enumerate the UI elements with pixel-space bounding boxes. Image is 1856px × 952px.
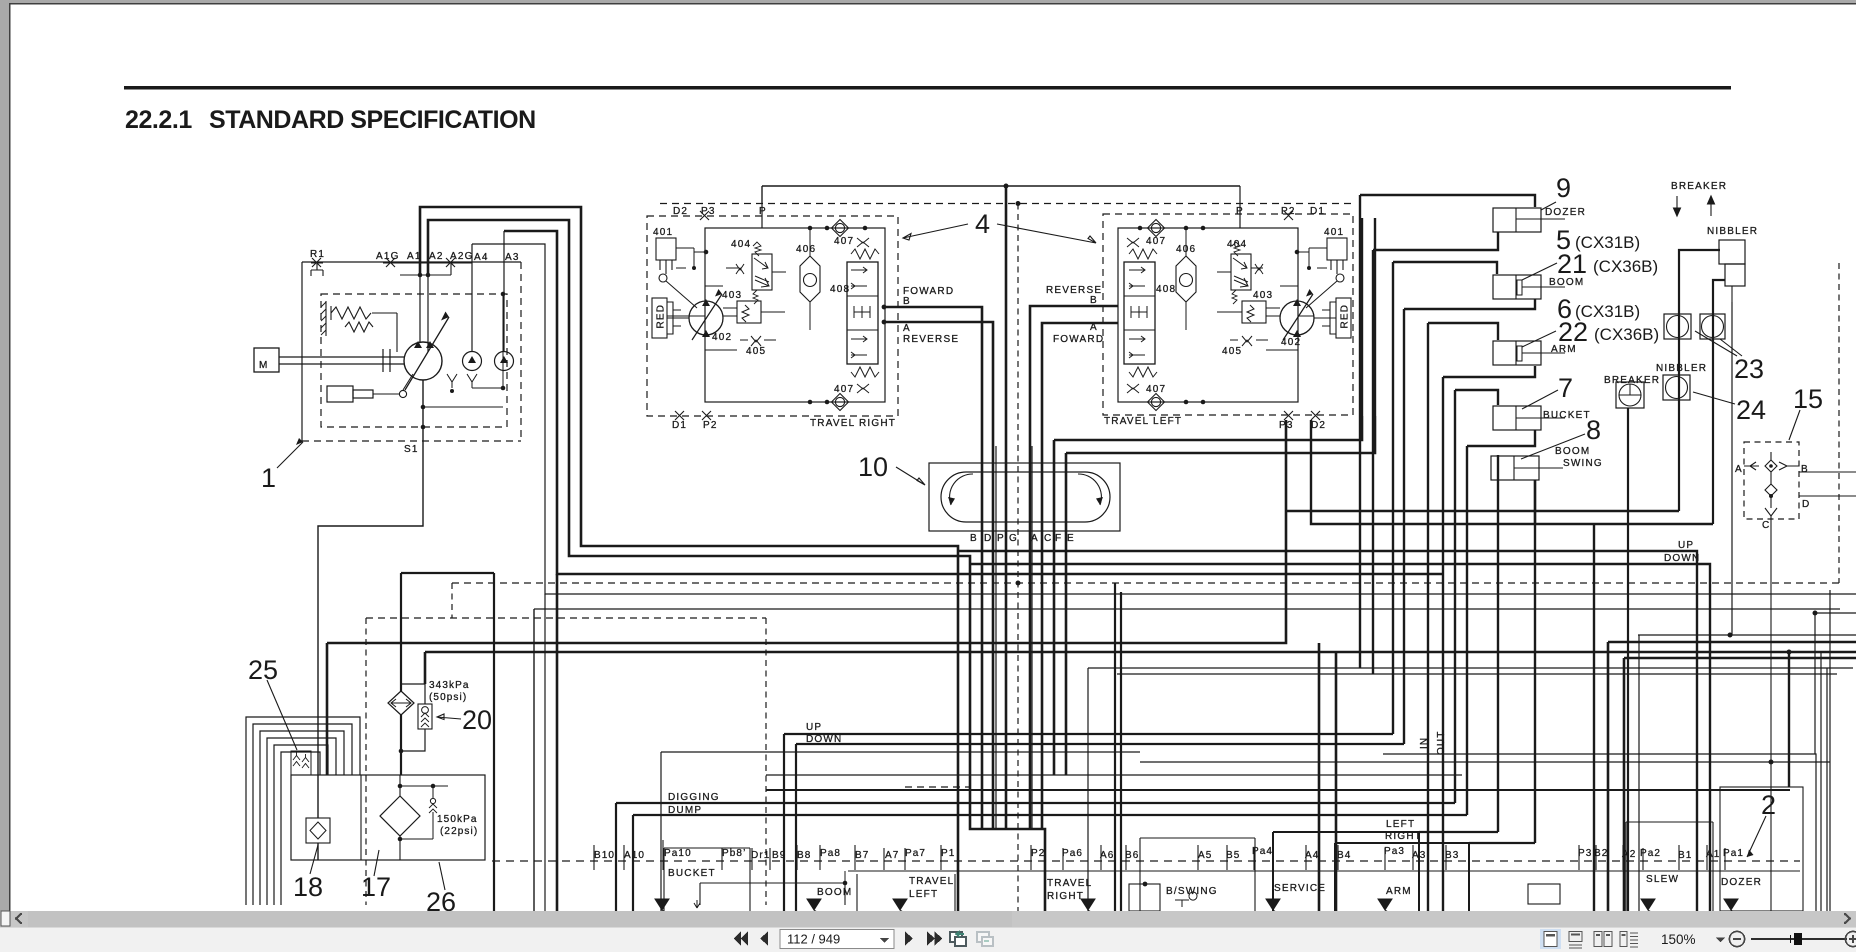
wire bswing feed lower from D2: [1311, 420, 1713, 524]
shaft: [279, 349, 404, 372]
bank body top rail: [848, 870, 1800, 872]
svg-text:407: 407: [1146, 384, 1166, 395]
svg-text:D2: D2: [673, 206, 688, 217]
case drain symbols: [447, 294, 503, 388]
horizontal scrollbar strip: [0, 911, 1856, 927]
boom section connector: [700, 883, 845, 905]
svg-text:A: A: [1090, 322, 1098, 333]
arm port 6/22: [1493, 341, 1541, 365]
wire A4 riser thin: [472, 244, 1856, 594]
svg-text:10: 10: [858, 452, 888, 482]
pressure filter 406 left: [1176, 256, 1196, 302]
svg-text:B3: B3: [1445, 850, 1459, 861]
svg-text:B2: B2: [1594, 848, 1608, 859]
rotate icon 1: [950, 931, 966, 946]
svg-text:406: 406: [1176, 244, 1196, 255]
servo cylinder: [327, 386, 353, 402]
thin drop x1639: [1638, 635, 1640, 911]
breaker arrows top: [1674, 196, 1681, 216]
valve 15 dashed box: [1744, 442, 1799, 519]
block internal wiring left: [1217, 252, 1336, 350]
svg-text:STANDARD SPECIFICATION: STANDARD SPECIFICATION: [209, 106, 536, 134]
svg-text:SLEW: SLEW: [1646, 874, 1679, 885]
bucket section box: [664, 848, 750, 911]
P supply drop left: [1239, 186, 1241, 228]
svg-text:Pa6: Pa6: [1062, 848, 1083, 859]
wire arm feed lower: [1443, 366, 1535, 911]
swivel F riser to travel-left frame: [1054, 416, 1362, 775]
S1 suction line: [318, 380, 423, 860]
svg-text:Pb8’: Pb8’: [722, 848, 746, 859]
svg-text:SWING: SWING: [1563, 458, 1603, 469]
travel-left side risers: [1362, 218, 1375, 416]
boom port 5/21: [1493, 275, 1541, 299]
svg-text:B: B: [970, 533, 978, 544]
shuttle valve 404: [752, 254, 772, 290]
pilot box dashed top: [366, 617, 766, 619]
pilot filter loop frame: [401, 573, 494, 691]
bottom toolbar: [0, 927, 1856, 952]
svg-text:Pa4: Pa4: [1252, 846, 1273, 857]
port ticks: [594, 840, 1725, 870]
pilot rail y790: [766, 789, 1790, 791]
svg-text:B9: B9: [772, 850, 786, 861]
bswing port riser: [1497, 455, 1499, 511]
bypass check 150kPa: [400, 786, 448, 839]
layout icon 2: [1569, 932, 1582, 949]
block internal wiring: [667, 252, 785, 350]
pressure filter 406: [800, 256, 820, 302]
svg-text:8: 8: [1586, 415, 1601, 445]
control spring: [331, 306, 371, 320]
thin rail y609: [534, 608, 1840, 610]
B / A output lines: [885, 307, 982, 829]
port X marks left: [1284, 211, 1320, 420]
thin rail y775: [766, 774, 1462, 776]
label 17 leader: [374, 850, 379, 876]
svg-text:402: 402: [712, 332, 732, 343]
svg-text:7: 7: [1558, 373, 1573, 403]
bank dashed top: [905, 786, 970, 788]
port lines A4 A3: [472, 231, 504, 352]
slew section box: [1626, 822, 1713, 911]
svg-text:A4: A4: [1305, 850, 1319, 861]
svg-text:Pa2: Pa2: [1640, 848, 1661, 859]
counterbalance 403: [737, 301, 761, 323]
svg-text:401: 401: [653, 227, 673, 238]
label 4 leader arrows: [903, 224, 968, 240]
label 26 leader: [439, 862, 445, 890]
svg-text:R1: R1: [310, 249, 325, 260]
layout icon 3 (two page): [1594, 932, 1612, 947]
svg-text:B5: B5: [1226, 850, 1240, 861]
svg-text:P2: P2: [703, 420, 718, 431]
svg-text:DOWN: DOWN: [1664, 553, 1700, 564]
svg-text:408: 408: [1156, 284, 1176, 295]
svg-text:OUT: OUT: [1436, 731, 1447, 755]
svg-text:P2: P2: [1031, 848, 1045, 859]
slew feed drop: [1593, 524, 1595, 911]
svg-text:B10: B10: [594, 850, 615, 861]
travel left motor M3: [1280, 301, 1314, 335]
svg-text:P: P: [759, 206, 767, 217]
svg-text:(50psi): (50psi): [429, 692, 467, 703]
group 4 dashed header: [660, 203, 1355, 205]
travel left dashed boundary: [1103, 214, 1353, 415]
thin rail y668: [1088, 667, 1853, 669]
svg-text:FOWARD: FOWARD: [1053, 334, 1104, 345]
travel left section dividers: [857, 874, 955, 911]
label 2 leader: [1747, 816, 1766, 857]
tank return rings: [246, 717, 360, 905]
bucket port 7: [1493, 406, 1541, 430]
bswing lower port riser: [1534, 480, 1536, 524]
return rail y643 to P3: [327, 420, 1286, 775]
dashed stub: [451, 583, 453, 618]
right return rail y642: [1608, 642, 1856, 911]
page number box: [780, 930, 894, 949]
port column drops: [1497, 511, 1499, 832]
svg-text:17: 17: [361, 872, 391, 902]
svg-text:22: 22: [1558, 317, 1588, 347]
pilot box dashed left: [365, 618, 367, 905]
bswing pilot symbol: [1175, 892, 1197, 907]
layout icon 1 (active): [1540, 929, 1561, 949]
svg-text:P: P: [1236, 206, 1244, 217]
pump riser tails: [556, 574, 559, 911]
small boxes right: [1528, 884, 1560, 904]
svg-text:404: 404: [1227, 239, 1247, 250]
swivel E riser to travel-left frame: [1066, 416, 1375, 775]
boom swing port 8: [1491, 456, 1539, 480]
svg-text:9: 9: [1556, 173, 1571, 203]
svg-text:TRAVEL LEFT: TRAVEL LEFT: [1104, 416, 1182, 427]
svg-text:A2: A2: [1622, 849, 1636, 860]
svg-text:B7: B7: [855, 850, 869, 861]
gear pump circles: [463, 352, 482, 371]
check valve 407 top: [835, 223, 844, 232]
svg-text:B6: B6: [1125, 850, 1139, 861]
svg-text:403: 403: [1253, 290, 1273, 301]
bypass branch with relief 20: [401, 684, 425, 751]
throttles by 408 left: [1127, 238, 1139, 393]
relief valve 20: [418, 704, 432, 729]
label 24 leader: [1693, 392, 1735, 404]
svg-text:22.2.1: 22.2.1: [125, 106, 192, 134]
svg-text:D: D: [1802, 499, 1810, 510]
svg-text:B: B: [1090, 295, 1098, 306]
svg-text:4: 4: [975, 209, 990, 239]
svg-text:DUMP: DUMP: [668, 805, 702, 816]
B / A output lines left: [1030, 306, 1118, 829]
label 23 leaders: [1695, 331, 1742, 356]
svg-text:401: 401: [1324, 227, 1344, 238]
svg-text:A2G: A2G: [450, 251, 474, 262]
pilot filter F2 diamond 343kPa: [388, 691, 414, 715]
svg-text:D: D: [984, 533, 992, 544]
check valve 407 top left: [1151, 223, 1160, 232]
right margin dashed riser: [1838, 263, 1840, 583]
check valve 407 bottom: [835, 397, 844, 406]
svg-text:A5: A5: [1198, 850, 1212, 861]
label 10 leader: [896, 467, 925, 485]
arm section box: [1335, 843, 1469, 911]
thin rail y754: [1383, 754, 1816, 911]
R1 port: [311, 258, 323, 267]
service section box: [1273, 832, 1419, 911]
svg-text:B: B: [903, 296, 911, 307]
svg-text:DIGGING: DIGGING: [668, 792, 720, 803]
check valve 407 bottom left: [1151, 397, 1160, 406]
svg-text:Pa3: Pa3: [1384, 846, 1405, 857]
svg-text:112 / 949: 112 / 949: [787, 932, 840, 947]
svg-text:(22psi): (22psi): [440, 826, 478, 837]
svg-text:BOOM: BOOM: [1549, 277, 1584, 288]
svg-text:403: 403: [722, 290, 742, 301]
solenoid arrows: [655, 899, 1739, 915]
travel right motor M2: [689, 301, 723, 335]
top gray bar: [0, 0, 1856, 3]
tank box assembly: [291, 775, 485, 860]
main filter F1 150kPa: [380, 796, 420, 836]
throttle 405: [751, 336, 761, 346]
wire A3 riser: [504, 231, 1443, 574]
svg-text:NIBBLER: NIBBLER: [1656, 363, 1707, 374]
digging/dump pilot pair: [616, 803, 1455, 911]
zoom out: [1729, 931, 1744, 946]
svg-text:B: B: [1801, 464, 1809, 475]
svg-text:M: M: [259, 360, 269, 371]
wire bswing feed upper branch: [1286, 510, 1679, 512]
svg-text:F: F: [1055, 533, 1062, 544]
swivel joint frame: [929, 463, 1120, 531]
svg-text:RED: RED: [656, 304, 667, 329]
dozer section box 2: [1720, 787, 1803, 911]
svg-text:A: A: [1031, 533, 1039, 544]
svg-text:(CX36B): (CX36B): [1593, 257, 1658, 276]
next-page arrows: [905, 932, 913, 946]
svg-text:UP: UP: [806, 722, 822, 733]
port row labels: [594, 846, 1744, 861]
svg-text:Pa1: Pa1: [1723, 848, 1744, 859]
svg-text:C: C: [1044, 533, 1052, 544]
return rail y652: [425, 652, 1856, 684]
coupler squares 23: [1664, 314, 1691, 339]
travel right inner frame: [705, 228, 885, 402]
svg-text:A: A: [1735, 464, 1743, 475]
thin rail y674: [1117, 673, 1837, 675]
svg-text:G: G: [1009, 533, 1018, 544]
svg-text:407: 407: [1146, 236, 1166, 247]
bswing section box: [1140, 838, 1255, 911]
svg-text:P: P: [997, 533, 1005, 544]
svg-text:A4: A4: [474, 252, 489, 263]
dozer down rail to item15: [970, 564, 1710, 911]
RED shuttle box left: [1336, 298, 1351, 338]
svg-text:BOOM: BOOM: [1555, 446, 1590, 457]
pilot box at B6: [1129, 884, 1160, 911]
svg-text:A1: A1: [407, 251, 422, 262]
right pilot rail: [1469, 842, 1535, 844]
thin right rail: [1829, 590, 1831, 911]
dozer up rail to item15: [958, 551, 1697, 911]
svg-text:A3: A3: [1412, 850, 1426, 861]
svg-text:(CX36B): (CX36B): [1594, 325, 1659, 344]
rotate icon 2 (disabled): [977, 932, 993, 946]
junction dots left frame: [1184, 226, 1189, 231]
dozer feed drop to box 2: [1788, 652, 1790, 787]
svg-text:ARM: ARM: [1386, 886, 1412, 897]
wire boom feed upper: [1393, 262, 1497, 734]
left pilot rail: [1419, 831, 1498, 833]
node P junction: [1004, 184, 1009, 189]
swivel oval: [941, 472, 1110, 522]
svg-text:RIGHT: RIGHT: [1047, 891, 1084, 902]
svg-text:Pa8: Pa8: [820, 848, 841, 859]
svg-text:A3: A3: [505, 252, 520, 263]
svg-text:Dr1: Dr1: [751, 850, 770, 861]
svg-text:24: 24: [1736, 395, 1766, 425]
svg-text:407: 407: [834, 236, 854, 247]
svg-text:Pa7: Pa7: [905, 848, 926, 859]
svg-text:C: C: [1762, 520, 1770, 531]
svg-text:BREAKER: BREAKER: [1671, 181, 1727, 192]
zoom in (cut off at edge): [1845, 931, 1856, 946]
travel left inner frame: [1118, 228, 1298, 402]
drain dots: [501, 292, 506, 297]
strainer 18 box: [306, 818, 330, 843]
boom up/down pilot pair: [784, 734, 1393, 911]
pilot line to swivel P: [1005, 186, 1008, 829]
svg-text:ARM: ARM: [1551, 344, 1577, 355]
pilot dashed drop G: [1017, 204, 1019, 912]
thin return rail y752: [661, 752, 1140, 911]
strainer 25 box: [291, 751, 311, 775]
left gray strip: [0, 0, 9, 911]
svg-text:402: 402: [1281, 337, 1301, 348]
svg-text:IN: IN: [1419, 737, 1430, 749]
svg-text:15: 15: [1793, 384, 1823, 414]
svg-text:406: 406: [796, 244, 816, 255]
swash plate arrow: [405, 317, 449, 390]
svg-text:P1: P1: [941, 848, 955, 859]
svg-text:A10: A10: [624, 850, 645, 861]
main spool 408 left: [1124, 262, 1155, 364]
svg-text:DOZER: DOZER: [1545, 207, 1586, 218]
svg-text:404: 404: [731, 239, 751, 250]
svg-text:S1: S1: [404, 444, 419, 455]
svg-text:DOZER: DOZER: [1721, 877, 1762, 888]
svg-text:BOOM: BOOM: [817, 887, 852, 898]
svg-text:B4: B4: [1337, 850, 1351, 861]
svg-text:405: 405: [1222, 346, 1242, 357]
svg-text:TRAVEL: TRAVEL: [1047, 878, 1092, 889]
svg-text:DOWN: DOWN: [806, 734, 842, 745]
svg-text:TRAVEL RIGHT: TRAVEL RIGHT: [810, 418, 896, 429]
wire arm feed upper: [1428, 323, 1498, 911]
motor M1: [254, 348, 279, 372]
riser from breaker2: [1627, 408, 1629, 911]
svg-text:405: 405: [746, 346, 766, 357]
check valves inside: [1765, 460, 1777, 472]
long pilot dashed rail: [452, 582, 1840, 584]
svg-text:P3: P3: [1279, 420, 1294, 431]
svg-text:A1: A1: [1706, 849, 1720, 860]
svg-text:150%: 150%: [1661, 932, 1696, 947]
svg-text:D1: D1: [672, 420, 687, 431]
svg-text:B8: B8: [797, 850, 811, 861]
nibbler pilot drop: [1731, 302, 1733, 635]
label 15 leader: [1789, 410, 1800, 440]
nibbler block top: [1719, 240, 1745, 264]
thin right stub y613: [1815, 613, 1856, 754]
layout icon 4: [1620, 932, 1638, 948]
wire dozer feed lower: [1373, 232, 1498, 674]
svg-text:BUCKET: BUCKET: [1543, 410, 1591, 421]
port lines A1 A2: [420, 275, 428, 352]
svg-text:A2: A2: [429, 251, 444, 262]
right risers from return rails: [1318, 643, 1321, 911]
svg-text:408: 408: [830, 284, 850, 295]
svg-text:P3: P3: [1578, 848, 1592, 859]
svg-text:UP: UP: [1678, 540, 1694, 551]
return drop x534: [533, 609, 535, 911]
svg-text:D1: D1: [1310, 206, 1325, 217]
svg-text:21: 21: [1557, 249, 1587, 279]
junction dots on frame: [808, 226, 813, 231]
svg-text:2: 2: [1761, 790, 1776, 820]
tank rail drop x494: [493, 573, 495, 911]
wire A1 riser: [420, 207, 958, 911]
main spool 408: [847, 262, 878, 364]
throttles by 408: [857, 238, 869, 393]
label 25 leader: [267, 680, 297, 750]
svg-text:150kPa: 150kPa: [437, 814, 478, 825]
wire bucket feed lower: [1467, 430, 1535, 815]
svg-text:BREAKER: BREAKER: [1604, 375, 1660, 386]
svg-text:B/SWING: B/SWING: [1166, 886, 1218, 897]
main pump P1 circle: [404, 342, 442, 380]
throttle 405 left: [1242, 336, 1252, 346]
svg-text:A1G: A1G: [376, 251, 400, 262]
svg-text:A: A: [903, 323, 911, 334]
svg-text:20: 20: [462, 705, 492, 735]
svg-text:18: 18: [293, 872, 323, 902]
wire boom feed lower: [1404, 299, 1535, 744]
label 20 leader arrow: [437, 714, 461, 720]
svg-text:343kPa: 343kPa: [429, 680, 470, 691]
svg-text:LEFT: LEFT: [909, 889, 938, 900]
parking brake 401 left: [1327, 238, 1347, 260]
P supply header wire: [762, 185, 1240, 187]
svg-text:407: 407: [834, 384, 854, 395]
port X marks: [675, 211, 711, 420]
svg-text:BUCKET: BUCKET: [668, 868, 716, 879]
svg-text:A6: A6: [1100, 850, 1114, 861]
svg-text:TRAVEL: TRAVEL: [909, 876, 954, 887]
svg-text:23: 23: [1734, 354, 1764, 384]
svg-text:1: 1: [261, 463, 276, 493]
RED shuttle box: [652, 298, 667, 338]
travel right dashed boundary: [647, 216, 898, 416]
pilot box dashed right: [765, 618, 767, 905]
dozer port 9: [1493, 208, 1541, 232]
bank dashed port rail: [492, 860, 1800, 862]
breaker block 2: [1616, 382, 1644, 408]
svg-text:LEFT: LEFT: [1386, 819, 1415, 830]
svg-text:D2: D2: [1311, 420, 1326, 431]
wire A2 riser: [428, 220, 1045, 911]
